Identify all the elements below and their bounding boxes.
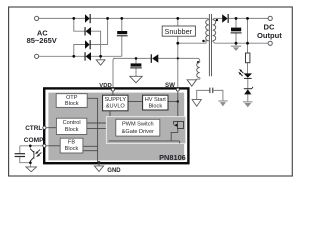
wire opto emitter to ground — [29, 161, 31, 167]
svg-text:Output: Output — [257, 31, 282, 40]
box Control Block — [56, 118, 86, 134]
pin CTRL — [43, 126, 46, 129]
wire COMP to FB block — [47, 145, 61, 147]
wire D4 anode to ground node and C1 bottom — [91, 55, 122, 57]
wire primary phase-dot stub — [203, 40, 206, 42]
ground Y-cap right — [218, 100, 227, 106]
phase dot secondary — [216, 19, 218, 21]
ground bridge negative — [96, 60, 105, 65]
border frame — [9, 7, 293, 176]
ground auxiliary winding — [187, 80, 196, 86]
svg-text:Snubber: Snubber — [165, 27, 193, 36]
diode D4 bridge — [86, 52, 91, 61]
capacitor Y-cap plates — [209, 88, 210, 94]
wire output cap top lead — [235, 18, 237, 27]
wire primary bottom to SW node — [178, 41, 209, 43]
junction node load branch return — [246, 42, 249, 45]
wire VDD rail — [114, 57, 151, 59]
zener diode reverse — [244, 87, 253, 95]
junction node negative bus ground — [99, 55, 102, 58]
wire CTRL stub — [42, 127, 44, 129]
svg-text:PN8106: PN8106 — [159, 153, 186, 162]
wire VDD pin to SUPPLY — [112, 90, 114, 95]
resistor load R — [246, 53, 250, 63]
transformer T1 auxiliary winding — [197, 62, 200, 77]
wire COMP line — [20, 145, 45, 147]
wire snubber top lead — [177, 18, 179, 26]
pin GND junction — [98, 161, 101, 164]
box PWM Switch & Gate Driver — [116, 119, 160, 136]
junction node VDD rail cap — [135, 57, 138, 60]
wire FB to bus lower — [83, 150, 98, 152]
wire HV Start to SW line — [168, 101, 178, 103]
svg-text:SUPPLY: SUPPLY — [104, 97, 126, 103]
svg-text:VDD: VDD — [99, 83, 111, 89]
transformer T1 primary winding — [206, 20, 209, 41]
wire snubber bottom lead — [177, 36, 179, 43]
phase dot primary — [202, 40, 204, 42]
LED indicator — [238, 69, 252, 79]
wire GND stub — [98, 163, 100, 166]
svg-text:GND: GND — [107, 168, 121, 174]
diode D2 bridge — [86, 27, 91, 36]
box SUPPLY & UVLO — [103, 95, 128, 111]
IC block U1 gray fill — [48, 93, 184, 161]
capacitor VDD plates — [131, 63, 142, 66]
wire zener to ground — [247, 94, 249, 101]
wire AC1 to D2 — [74, 18, 85, 31]
svg-text:HV Start: HV Start — [145, 97, 167, 103]
junction node output cap top — [235, 17, 238, 20]
wire Y-cap right segment — [213, 90, 223, 100]
terminal AC top — [35, 16, 39, 20]
svg-text:&UVLO: &UVLO — [106, 104, 126, 110]
capacitor output plates — [231, 28, 241, 32]
ground VDD cap — [130, 76, 142, 83]
phase dot auxiliary — [197, 61, 199, 63]
junction node COMP branch — [29, 145, 32, 148]
IC block U1 outer border — [44, 88, 188, 163]
junction node SW-VDD diode — [177, 57, 179, 59]
wire VDD pin riser — [113, 58, 115, 88]
wire aux ground join — [192, 79, 195, 81]
svg-text:SW: SW — [165, 82, 175, 89]
snubber box — [162, 26, 195, 36]
junction node opto emitter — [29, 161, 32, 164]
wire source sense line — [171, 129, 178, 141]
junction node AC1-D1 — [72, 17, 75, 20]
wire secondary bottom return — [212, 41, 268, 43]
wire D6 cathode to DC+ terminal — [229, 17, 268, 19]
ground output secondary — [231, 46, 241, 51]
ground COMP network — [26, 167, 36, 172]
wire output cap ground stub — [235, 43, 237, 45]
wire SUPPLY to HV Start — [128, 101, 143, 103]
wire panel bottom stub — [179, 141, 181, 144]
wire aux winding bottom squiggle — [194, 78, 200, 82]
junction node snubber bottom / primary — [176, 42, 179, 45]
transformer T1 secondary winding — [213, 20, 216, 41]
wire CTRL to Control block — [47, 127, 57, 129]
wire C1 bottom lead — [121, 36, 123, 56]
wire FB to bus upper — [83, 145, 98, 147]
pin COMP — [43, 144, 46, 147]
wire aux winding top bend — [198, 58, 200, 62]
junction node output cap bottom — [235, 42, 238, 45]
wire Control to PWM lower — [87, 127, 107, 129]
wire SUPPLY bottom stub — [109, 111, 111, 117]
junction node D3-top bus — [106, 17, 109, 20]
terminal AC bottom — [35, 54, 39, 58]
terminal DC output plus — [268, 16, 272, 20]
optocoupler phototransistor — [30, 149, 41, 161]
wire COMP cap lower lead — [20, 157, 31, 163]
box OTP Block — [56, 94, 87, 108]
capacitor COMP plates — [15, 153, 25, 154]
ground GND pin — [94, 166, 103, 172]
svg-text:PWM Switch: PWM Switch — [122, 122, 154, 128]
junction node snubber top — [176, 17, 179, 20]
wire output cap bottom lead — [235, 33, 237, 43]
wire top bus — [91, 17, 207, 19]
terminal DC output return — [268, 41, 272, 45]
transformer T1 core — [208, 14, 210, 76]
wire primary top connector — [206, 18, 209, 19]
svg-text:Block: Block — [65, 101, 79, 107]
wire D3 cathode to top bus — [91, 18, 108, 44]
wire load branch upper — [247, 18, 249, 53]
wire D5 anode to aux winding — [158, 57, 198, 59]
transistor Q1 MOSFET — [174, 121, 184, 128]
capacitor C1 bulk plates — [117, 31, 127, 34]
ground load branch — [243, 101, 253, 107]
junction node C1 top — [120, 17, 123, 20]
svg-text:Block: Block — [148, 103, 162, 109]
box FB Block — [60, 138, 83, 153]
wire Control to PWM upper — [87, 122, 107, 124]
wire Y-cap left segment — [197, 90, 210, 99]
svg-text:CTRL: CTRL — [25, 125, 42, 132]
diode D5 VDD supply — [152, 54, 158, 63]
wire AC line 1 top — [38, 17, 85, 19]
wire COMP cap branch — [19, 146, 21, 153]
junction node load branch top — [246, 17, 249, 20]
diode D3 bridge — [85, 40, 90, 49]
wire opto collector lead — [29, 146, 31, 149]
diode D1 bridge — [85, 14, 90, 23]
wire AC2 to D3 — [74, 45, 85, 57]
wire LED to zener — [247, 79, 249, 89]
wire panel bottom line — [109, 140, 180, 142]
svg-text:Block: Block — [65, 127, 79, 133]
pin VDD — [111, 88, 114, 91]
junction node HV-SW — [177, 100, 179, 102]
svg-text:COMP: COMP — [24, 137, 44, 144]
svg-text:&Gate Driver: &Gate Driver — [122, 129, 154, 135]
wire C1 top lead — [121, 18, 123, 31]
wire secondary top lead — [212, 18, 222, 19]
wire bridge ground stub — [100, 56, 102, 60]
pin SW — [176, 88, 179, 91]
ground Y-cap left — [192, 100, 201, 107]
wire VDD cap bottom lead — [135, 68, 137, 76]
diode D6 output rectifier — [222, 14, 227, 22]
wire VDD cap top lead — [135, 58, 137, 63]
wire SW internal drain — [177, 90, 179, 121]
svg-text:Block: Block — [65, 146, 79, 152]
wire D2 anode to negative bus — [91, 31, 101, 56]
wire load branch R to LED — [247, 63, 249, 74]
svg-text:Control: Control — [63, 120, 81, 126]
svg-text:85~265V: 85~265V — [27, 36, 57, 45]
junction node AC2-D4 — [72, 55, 75, 58]
box HV Start Block — [143, 95, 168, 110]
wire OTP to internal bus — [87, 98, 97, 162]
wire SW drain line — [177, 43, 179, 88]
svg-text:FB: FB — [68, 140, 75, 146]
wire AC line 2 bottom — [38, 55, 84, 57]
PWM panel — [106, 117, 185, 144]
